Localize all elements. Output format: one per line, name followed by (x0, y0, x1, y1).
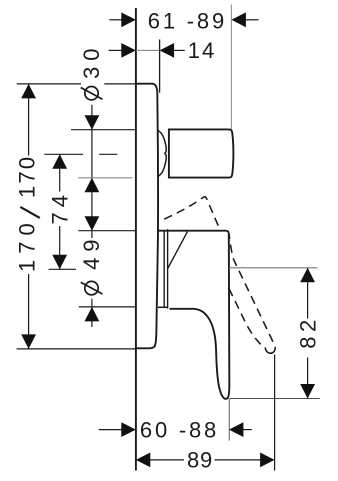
dimension 74: bottom tick (49, 268, 76, 270)
arrowhead ø30 bottom (85, 178, 100, 193)
arrowhead 74 bottom (52, 255, 67, 269)
arrowhead 170/170 bottom (21, 334, 36, 349)
dimension 74: vertical line lower (59, 226, 61, 269)
svg-text:30: 30 (79, 42, 104, 78)
knob handle (temperature, ø30) (169, 129, 234, 177)
dimension 89: left line (149, 459, 184, 461)
arrowhead 89 left (136, 453, 151, 468)
lever handle alternate position (dashed) back edge (229, 289, 261, 345)
dimension 60-88: left tail (99, 429, 124, 431)
arrowhead 14 right (160, 43, 175, 58)
lever hub step (158, 306, 168, 308)
lever handle alternate position (dashed) front edge (229, 234, 274, 347)
arrowhead 60-88 right (229, 422, 244, 437)
svg-text:60 -88: 60 -88 (140, 417, 219, 442)
svg-text:82: 82 (296, 315, 321, 348)
arrowhead 89 right (260, 453, 275, 468)
svg-text:74: 74 (47, 190, 72, 224)
knob center line dash (99, 153, 117, 155)
lever handle alternate position end cap arc (265, 347, 275, 353)
extension line dashed-lever reach (bottom) (274, 355, 276, 471)
extension line hub top (78, 230, 136, 232)
extension line knob top (71, 129, 135, 131)
dimension 82: vertical line lower (307, 358, 309, 399)
dimension 170/170: vertical line lower (28, 274, 30, 349)
svg-text:170: 170 (15, 155, 40, 198)
lever handle alternate position (dashed) upper outline (164, 197, 220, 231)
extension line hub bottom (79, 306, 136, 308)
diameter symbol of ø49 (85, 281, 98, 294)
extension line lever axis (for 82), gray (229, 267, 318, 269)
extension line plate front (for 14) (159, 40, 161, 93)
extension line knob front (for 61-89), gray (230, 5, 232, 130)
arrowhead 60-88 left (121, 422, 136, 437)
wire main vertical extension line (wall plane) (135, 8, 137, 471)
dimension ø30/ø49 vertical line (91, 105, 93, 238)
extension line plate bottom (17, 348, 136, 350)
knob neck lower curve (158, 153, 167, 176)
dimension 170/170: vertical line upper (28, 84, 30, 156)
dimension 74: vertical line upper (59, 154, 61, 191)
svg-text:61 -89: 61 -89 (148, 9, 227, 34)
svg-text:170: 170 (15, 217, 40, 272)
dimension 61-89: left tail (109, 19, 124, 21)
arrowhead 14 left (121, 43, 136, 58)
dimension 14: inner line (136, 49, 160, 51)
arrowhead 74 top (52, 154, 67, 169)
svg-text:49: 49 (79, 233, 104, 269)
arrowhead 61-89 left (121, 12, 136, 27)
arrowhead 82 top (300, 268, 315, 283)
arrowhead 61-89 right (231, 12, 246, 27)
dimension 82: vertical line upper (307, 268, 309, 319)
lever sleeve line 1 (163, 231, 165, 307)
dimension 89: right line (215, 459, 262, 461)
lever handle body (solid, down position) (158, 231, 230, 399)
extension line plate top (17, 83, 81, 85)
lever sleeve line 2 (167, 229, 169, 308)
extension line lever tip (for 82), gray (230, 398, 320, 400)
arrowhead 82 bottom (300, 384, 315, 399)
knob center line tick (44, 153, 83, 155)
dimension 61-89: right tail (245, 19, 259, 21)
dimension 14: left tail (109, 49, 124, 51)
arrowhead 170/170 top (21, 84, 36, 99)
diameter symbol of ø30 (85, 87, 98, 100)
svg-text:89: 89 (187, 448, 213, 473)
label 170/170 slash (20, 207, 40, 218)
arrowhead ø49 top (85, 216, 100, 231)
dimension 14: right tail (173, 49, 185, 51)
wall plate (escutcheon, side view) (136, 84, 158, 349)
extension line knob bottom (gray) (78, 177, 133, 179)
extension line lever front (bottom) (228, 399, 230, 441)
arrowhead ø30 top (85, 115, 100, 130)
lever hub cone edge (168, 232, 188, 269)
dimension 60-88: right tail (242, 429, 251, 431)
arrowhead ø49 bottom (85, 307, 100, 322)
svg-text:14: 14 (188, 38, 216, 63)
knob neck upper curve (158, 130, 167, 153)
